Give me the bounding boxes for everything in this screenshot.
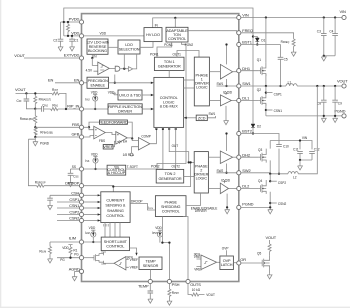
svg-text:SELECTION: SELECTION xyxy=(119,47,140,51)
buffer LDO sel feedback xyxy=(124,54,136,71)
resistor RINT xyxy=(52,92,59,95)
node bus B ss xyxy=(162,128,164,130)
wire DH1 out xyxy=(233,71,237,72)
svg-text:4.5V: 4.5V xyxy=(86,69,93,73)
wire control to driver logic a xyxy=(184,79,195,81)
pin VIN xyxy=(237,15,241,19)
capacitor C5 xyxy=(280,45,282,87)
wire PGND2 xyxy=(241,206,270,208)
svg-text:LOGIC: LOGIC xyxy=(196,177,208,181)
wire FBS tap to feedforward xyxy=(89,122,100,127)
svg-text:PGND: PGND xyxy=(242,202,253,207)
wire CSN2 stub xyxy=(57,220,79,222)
page edge shading left xyxy=(0,0,1,308)
wire CSP2 stub xyxy=(57,214,79,216)
wire RIP_IN to driver xyxy=(84,108,108,110)
capacitor C8 xyxy=(323,85,325,87)
svg-text:PVDD: PVDD xyxy=(221,179,230,183)
svg-text:VDD: VDD xyxy=(91,90,98,94)
svg-text:IINJ: IINJ xyxy=(85,98,89,102)
wire DH2 out xyxy=(233,156,237,158)
resistor OUTS 10k to VOUT xyxy=(188,284,205,295)
wire EN xyxy=(55,82,79,84)
wire control to driver logic b xyxy=(184,87,195,89)
svg-text:VIN: VIN xyxy=(340,9,347,14)
wire GFB xyxy=(35,136,79,138)
pin CSP1 xyxy=(79,200,83,204)
box UVLO & TSD xyxy=(112,93,116,95)
svg-text:DROOP: DROOP xyxy=(65,180,79,185)
inductor L2 xyxy=(288,172,298,174)
wire BST2 net xyxy=(241,134,279,145)
svg-text:DRIVER: DRIVER xyxy=(118,110,132,114)
node phase2 bus join xyxy=(188,161,190,163)
svg-text:ILIM: ILIM xyxy=(69,235,76,240)
diode D2 xyxy=(251,124,255,127)
transistor PG pulldown pair xyxy=(84,257,92,259)
wire CSH stub xyxy=(57,194,79,196)
current source IINJ xyxy=(93,94,97,96)
svg-text:SW1: SW1 xyxy=(209,112,216,116)
svg-text:Q4: Q4 xyxy=(258,179,262,183)
wire 12VLDO bottom to EXTVDD xyxy=(91,54,93,58)
ground Q5 xyxy=(269,269,271,274)
svg-text:RIPPLE INJECTION: RIPPLE INJECTION xyxy=(108,105,142,109)
node IILIM on ILIM wire xyxy=(92,241,94,243)
svg-text:VDD: VDD xyxy=(71,31,79,36)
pin EN xyxy=(79,81,83,85)
svg-text:CONTROL: CONTROL xyxy=(106,245,124,249)
ground DL1 driver xyxy=(225,106,227,120)
svg-text:CSP2: CSP2 xyxy=(278,181,286,185)
svg-text:L2: L2 xyxy=(293,175,297,179)
resistor R1 pullup xyxy=(68,245,72,247)
ground under CSS xyxy=(68,181,73,186)
ground phase 2 xyxy=(268,209,273,214)
resistor RFBADJ(B1) xyxy=(34,109,36,128)
wire LDO logic to EN gate xyxy=(114,75,116,83)
capacitor CFF xyxy=(26,93,35,108)
svg-text:DH2: DH2 xyxy=(242,152,250,157)
svg-text:VREF: VREF xyxy=(103,145,114,149)
resistor Q5 pullup xyxy=(269,240,271,256)
pin DH1 xyxy=(237,69,241,73)
svg-text:LOGIC: LOGIC xyxy=(196,86,208,90)
svg-text:VOUT: VOUT xyxy=(15,87,26,92)
terminal VOUT xyxy=(342,84,346,88)
svg-text:Q3: Q3 xyxy=(258,148,262,152)
wire LDO SELECTION to HV LDO xyxy=(140,42,153,48)
svg-text:CURRENT: CURRENT xyxy=(106,198,125,202)
wire L2 to VOUT riser xyxy=(298,86,317,174)
box LDO SELECTION xyxy=(118,40,140,54)
svg-text:HV LDO: HV LDO xyxy=(146,33,160,37)
capacitor C10 xyxy=(278,149,280,174)
pin ILIM xyxy=(79,240,83,244)
wire BST2 to DH2 driver xyxy=(226,134,228,152)
svg-text:I1/2S: I1/2S xyxy=(148,206,154,210)
svg-text:RINT: RINT xyxy=(52,88,59,92)
svg-text:PVDD: PVDD xyxy=(69,17,80,22)
svg-text:OR: OR xyxy=(240,257,246,262)
svg-text:VREF: VREF xyxy=(130,258,138,262)
svg-text:IN: IN xyxy=(155,24,159,28)
node FBS tap xyxy=(34,126,36,128)
wire CSP2 in xyxy=(84,214,98,216)
svg-text:10 kΩ: 10 kΩ xyxy=(192,288,201,292)
box PHASE 1 DRIVER LOGIC xyxy=(194,57,209,106)
svg-text:UVLO & TSD: UVLO & TSD xyxy=(119,93,141,97)
svg-text:PVDD: PVDD xyxy=(223,90,232,94)
svg-text:SW1: SW1 xyxy=(217,82,224,86)
wire SW1 rail xyxy=(241,85,286,87)
wire FREQ net xyxy=(241,33,294,39)
op-amp sense FBS/GFB xyxy=(84,127,94,137)
pin CSP2 xyxy=(79,212,83,216)
node bus A comp xyxy=(155,128,157,130)
node EXTVDD junction xyxy=(91,57,93,59)
svg-text:SHARING: SHARING xyxy=(107,209,124,213)
svg-text:CSN2: CSN2 xyxy=(278,202,287,206)
current source IPSH xyxy=(158,230,162,232)
wire PSH from phase shedding xyxy=(162,217,169,280)
wire PG comp inputs xyxy=(126,259,129,267)
svg-text:IN: IN xyxy=(93,55,97,59)
pin DL2 xyxy=(237,186,241,190)
ground PGND divider xyxy=(34,137,36,141)
svg-text:GFB: GFB xyxy=(71,132,79,137)
wire EXTVDD from VOUT xyxy=(24,57,79,59)
pin FBS xyxy=(79,125,83,129)
node C5 on SW1 xyxy=(279,85,281,87)
svg-text:PG: PG xyxy=(60,258,65,262)
wire CSP2 stub xyxy=(269,180,271,182)
svg-text:Q1: Q1 xyxy=(257,58,261,62)
svg-text:BLOCKING: BLOCKING xyxy=(88,49,107,53)
buffer DL1 xyxy=(209,100,220,102)
svg-text:PON1: PON1 xyxy=(150,52,159,56)
buffer DH2 xyxy=(208,156,220,158)
node VOUT/Cff xyxy=(25,92,27,94)
capacitor C1 xyxy=(71,36,73,46)
wire feedforward to EA out xyxy=(127,122,132,138)
svg-text:CSP2: CSP2 xyxy=(69,210,79,215)
svg-text:EN: EN xyxy=(48,78,54,83)
box PRECISION ENABLE xyxy=(84,82,87,84)
svg-text:PON2: PON2 xyxy=(185,43,194,47)
resistor RDROOP xyxy=(37,184,44,187)
box SHORT-LIMIT CONTROL xyxy=(101,237,129,251)
box RIPPLE INJECTION DRIVER xyxy=(108,104,142,114)
wire DL2 out xyxy=(229,188,237,190)
pin CSN2 xyxy=(79,218,83,222)
svg-text:CONTROL: CONTROL xyxy=(106,214,124,218)
pin DROOP xyxy=(79,184,83,188)
box FEEDFORWARD xyxy=(99,120,128,125)
svg-text:SW2: SW2 xyxy=(217,169,224,173)
node bus D ton2 xyxy=(175,128,177,130)
wire SS xyxy=(71,168,80,170)
svg-text:SS: SS xyxy=(72,165,76,169)
pin CSN1 xyxy=(79,206,83,210)
capacitor C9 xyxy=(334,85,336,87)
svg-text:CONTROL: CONTROL xyxy=(160,96,178,100)
svg-text:ZCD: ZCD xyxy=(198,116,206,120)
wire VREF to EA xyxy=(113,141,116,146)
pin GFB xyxy=(79,135,83,139)
svg-text:RFREQ: RFREQ xyxy=(281,40,290,44)
svg-text:FBS: FBS xyxy=(72,122,80,127)
svg-text:PGND: PGND xyxy=(40,141,50,145)
svg-text:OUT: OUT xyxy=(172,144,179,148)
node resistor top xyxy=(67,21,69,23)
node C10 on SW2 xyxy=(278,173,280,175)
svg-text:CSS: CSS xyxy=(73,174,79,178)
page edge shading bottom xyxy=(0,307,350,308)
node L2 riser on VOUT xyxy=(316,85,318,87)
svg-text:RFBADJ(B): RFBADJ(B) xyxy=(40,131,53,135)
pin SS xyxy=(79,167,83,171)
node RINT join xyxy=(65,108,67,110)
svg-text:RFBADJ(B1): RFBADJ(B1) xyxy=(20,117,34,121)
node resistor bottom xyxy=(67,35,69,37)
svg-text:PSH: PSH xyxy=(172,282,180,287)
svg-text:CONTROL: CONTROL xyxy=(162,210,180,214)
node C1 top xyxy=(71,35,73,37)
wire VOUT feed xyxy=(16,92,53,94)
svg-text:C11: C11 xyxy=(293,147,299,151)
op-amp gm EA xyxy=(105,133,116,135)
pin PVDD xyxy=(79,20,83,24)
box TON 2 GENERATOR xyxy=(156,169,184,183)
svg-text:VOUT: VOUT xyxy=(14,53,25,58)
wire COMP out to control logic xyxy=(150,128,157,144)
wire FBS xyxy=(35,126,79,128)
comparator EXTVDD xyxy=(92,58,98,71)
wire temp sensor to TEMP pin xyxy=(150,270,152,280)
svg-text:PHASE: PHASE xyxy=(164,200,177,204)
svg-text:GENERATOR: GENERATOR xyxy=(159,177,182,181)
svg-text:VIN: VIN xyxy=(302,136,308,140)
wire DROOP pin bus xyxy=(84,162,191,191)
wire CSP1 stub xyxy=(265,91,267,93)
svg-text:TON 2: TON 2 xyxy=(165,172,176,176)
svg-text:DROOP: DROOP xyxy=(131,200,143,204)
wire SW1 sense xyxy=(217,85,237,87)
svg-text:C1: C1 xyxy=(74,39,78,43)
node bus C phase2 xyxy=(168,128,170,130)
svg-text:CFF: CFF xyxy=(17,99,23,103)
node divider top xyxy=(34,92,36,94)
box PHASE SHEDDING CONTROL xyxy=(155,196,186,217)
wire OVP latch top stub xyxy=(226,250,228,256)
box OVP LATCH xyxy=(220,256,234,270)
svg-text:C3: C3 xyxy=(317,29,321,33)
ground under RFREQ xyxy=(291,51,296,56)
ground under C1 xyxy=(70,46,75,51)
svg-text:PGND: PGND xyxy=(334,108,345,113)
pin OUTS xyxy=(186,279,190,283)
svg-text:IPSH: IPSH xyxy=(152,231,158,235)
wire C3 C4 common xyxy=(324,55,335,57)
svg-text:L1: L1 xyxy=(288,81,292,85)
buffer DL2 xyxy=(208,188,220,190)
wire 12VLDO to LDO SELECTION xyxy=(108,46,118,48)
svg-text:PON1: PON1 xyxy=(164,43,173,47)
svg-text:VOUT: VOUT xyxy=(337,78,348,83)
box 12V LDO with REVERSE BLOCKING xyxy=(86,39,108,54)
box VREF xyxy=(103,145,114,150)
ground C9 xyxy=(334,115,336,117)
capacitor C12 xyxy=(309,151,315,153)
svg-text:CINJ: CINJ xyxy=(42,104,48,108)
svg-text:VDD: VDD xyxy=(155,226,162,230)
pin AGND xyxy=(79,269,83,273)
wire PON2 riser xyxy=(157,42,186,169)
capacitor C2 xyxy=(60,22,62,46)
wire latch to OR pin xyxy=(233,262,236,264)
wire PG xyxy=(57,257,79,259)
svg-text:CSH: CSH xyxy=(71,190,79,195)
buffer DH1 xyxy=(209,71,220,73)
svg-text:VDD: VDD xyxy=(108,90,115,94)
pin CSH xyxy=(79,193,83,197)
resistor RPSH xyxy=(168,284,170,300)
wire CSN1 stub xyxy=(265,109,267,111)
wire AGND xyxy=(75,270,80,272)
capacitor C4 xyxy=(334,16,336,18)
svg-text:RIP_IN: RIP_IN xyxy=(67,104,79,109)
wire OR to Q5 gate xyxy=(241,262,260,264)
svg-text:VOUT: VOUT xyxy=(206,293,215,297)
svg-text:FREQ: FREQ xyxy=(242,28,253,33)
svg-text:TEMP: TEMP xyxy=(145,259,156,263)
pin PSH xyxy=(167,279,171,283)
capacitor TEMP filter xyxy=(149,284,151,298)
svg-text:& HICCUP: & HICCUP xyxy=(108,171,126,175)
wire OUTS from phase shedding xyxy=(183,217,188,280)
svg-text:C9: C9 xyxy=(338,101,342,105)
wire ILIM xyxy=(50,241,79,243)
svg-text:SHORT-LIMIT: SHORT-LIMIT xyxy=(104,240,128,244)
svg-text:DH1: DH1 xyxy=(242,66,250,71)
svg-text:CSP1: CSP1 xyxy=(69,197,79,202)
svg-text:EXTVDD: EXTVDD xyxy=(64,53,80,58)
capacitor CSH filter xyxy=(50,195,57,204)
box ZCD xyxy=(184,117,197,119)
wire SS box to control logic xyxy=(126,128,163,169)
capacitor C3 xyxy=(323,16,325,18)
terminal VIN xyxy=(342,15,346,19)
IC boundary xyxy=(82,14,239,282)
wire CSN2 stub xyxy=(269,202,271,204)
svg-text:VIN: VIN xyxy=(242,13,249,18)
svg-text:Q2: Q2 xyxy=(257,88,261,92)
wire short limit to temp arrow xyxy=(130,248,137,253)
wire CSN2 in xyxy=(84,220,98,222)
wire PVDD rail xyxy=(61,21,80,23)
svg-text:OVP: OVP xyxy=(222,247,229,251)
svg-text:VDD: VDD xyxy=(100,32,107,36)
svg-text:CSN2: CSN2 xyxy=(69,216,79,221)
svg-text:C2: C2 xyxy=(53,39,57,43)
svg-text:OUT1: OUT1 xyxy=(173,52,182,56)
pin RIP_IN xyxy=(79,107,83,111)
pin SW2 xyxy=(237,171,241,175)
svg-text:I I I I: I I I I xyxy=(103,223,109,227)
node ISS on SS wire xyxy=(94,168,96,170)
wire precision enable to control logic xyxy=(109,82,151,84)
node R1/PG xyxy=(69,257,71,259)
pin BST2 xyxy=(237,131,241,135)
svg-text:ENABLE: ENABLE xyxy=(90,83,105,87)
wire CSN1 stub xyxy=(57,207,79,209)
svg-text:SENSOR: SENSOR xyxy=(143,264,159,268)
wire adaptable ton to FREQ xyxy=(188,31,237,33)
resistor RFBADJ(T) xyxy=(34,93,36,108)
bus current sense to short limit xyxy=(105,223,120,238)
svg-text:CSN1: CSN1 xyxy=(69,203,79,208)
svg-text:FBS: FBS xyxy=(99,139,105,143)
svg-text:CSP1: CSP1 xyxy=(274,92,282,96)
svg-text:SW2: SW2 xyxy=(242,168,250,173)
transistor Q1 xyxy=(265,16,267,18)
box TON 1 GENERATOR xyxy=(154,57,184,70)
pin DH2 xyxy=(237,155,241,159)
wire DH1 driver to SW1 xyxy=(226,79,228,86)
svg-text:PG: PG xyxy=(74,252,79,256)
svg-text:DL2: DL2 xyxy=(242,184,249,189)
svg-text:C4: C4 xyxy=(329,29,333,33)
transistor Q3 xyxy=(241,141,270,174)
pin PGND xyxy=(237,205,241,209)
wire TON2 to driver logic 2 xyxy=(184,176,195,178)
wire VIN rail xyxy=(241,17,342,19)
svg-text:LOGIC: LOGIC xyxy=(163,100,175,104)
node mid divider xyxy=(34,108,36,110)
ground under RILIM xyxy=(48,258,53,263)
node PVDD/riser junction xyxy=(63,21,65,23)
pin TEMP xyxy=(148,279,152,283)
wire CSN1 in xyxy=(84,207,98,209)
svg-text:VDD: VDD xyxy=(89,226,96,230)
wire DROOP out to phase shedding xyxy=(130,204,155,211)
terminal PGND xyxy=(342,114,346,118)
svg-text:DL1: DL1 xyxy=(242,96,249,101)
svg-text:D2: D2 xyxy=(257,125,261,129)
resistor RILIM xyxy=(49,242,51,258)
wire ILIM into short limit box xyxy=(84,241,102,243)
svg-text:PON2: PON2 xyxy=(151,165,160,169)
wire PON1 xyxy=(157,42,172,57)
wire PGND rail xyxy=(266,115,342,117)
wire DROOP xyxy=(44,185,79,187)
pin PG xyxy=(79,256,83,260)
pin OR xyxy=(237,261,241,265)
svg-text:ISS: ISS xyxy=(85,159,89,163)
svg-text:VOUT: VOUT xyxy=(266,235,277,240)
ground under RPSH xyxy=(167,300,172,305)
svg-text:SENSING &: SENSING & xyxy=(105,204,126,208)
svg-text:TEMP: TEMP xyxy=(138,283,149,288)
wire VIN internal rail xyxy=(153,18,237,28)
svg-text:RPSH: RPSH xyxy=(172,291,179,295)
current source IILIM xyxy=(91,230,95,232)
wire VDD rail xyxy=(64,35,80,37)
resistor RINJ xyxy=(51,108,58,111)
pin BST1 xyxy=(237,42,241,46)
svg-text:OUTS: OUTS xyxy=(190,282,201,287)
